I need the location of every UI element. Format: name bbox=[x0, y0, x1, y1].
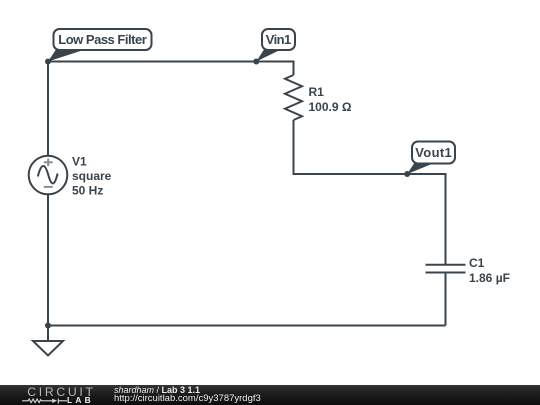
svg-text:1.86 µF: 1.86 µF bbox=[469, 271, 510, 285]
svg-text:Vout1: Vout1 bbox=[415, 145, 452, 160]
node Vout1 dot bbox=[404, 171, 410, 177]
node Vin1 dot bbox=[253, 59, 259, 65]
label box Vin1 bbox=[262, 29, 295, 50]
ground symbol bbox=[33, 326, 63, 356]
node ground dot bbox=[45, 323, 51, 329]
svg-text:LAB: LAB bbox=[67, 395, 94, 405]
voltage source V1 plus sign bbox=[44, 159, 53, 167]
capacitor C1 plates bbox=[426, 265, 466, 273]
svg-text:50 Hz: 50 Hz bbox=[72, 184, 103, 198]
resistor R1 zigzag bbox=[285, 75, 302, 120]
svg-text:square: square bbox=[72, 169, 112, 183]
label box Low Pass Filter bbox=[54, 29, 152, 50]
CircuitLab logo bbox=[0, 385, 100, 405]
value label C1 1.86 uF bbox=[469, 256, 510, 285]
callout pointer Vout1 bbox=[407, 164, 433, 175]
svg-text:Vin1: Vin1 bbox=[266, 32, 292, 47]
footer text bbox=[113, 384, 115, 386]
voltage source V1 minus sign bbox=[44, 186, 53, 188]
svg-text:V1: V1 bbox=[72, 155, 87, 169]
wire capacitor bottom vertical bbox=[445, 274, 447, 326]
value label V1 square 50 Hz bbox=[72, 155, 112, 198]
wire top horizontal from node A to resistor corner bbox=[48, 62, 294, 76]
wire resistor bottom to middle horizontal to capacitor top bbox=[294, 120, 446, 264]
node A dot (Low Pass Filter node) bbox=[45, 59, 51, 65]
voltage source V1 sine wave bbox=[38, 166, 58, 183]
svg-text:R1: R1 bbox=[309, 85, 325, 99]
label box Vout1 bbox=[412, 142, 455, 164]
voltage source V1 circle bbox=[29, 156, 68, 195]
svg-text:100.9 Ω: 100.9 Ω bbox=[309, 100, 352, 114]
callout pointer Vin1 bbox=[256, 50, 281, 62]
footer bar bbox=[0, 385, 540, 405]
wire left vertical upper (node A to V1 top) bbox=[47, 62, 49, 156]
svg-text:C1: C1 bbox=[469, 256, 485, 270]
callout pointer Low Pass Filter bbox=[48, 50, 85, 62]
svg-text:Low Pass Filter: Low Pass Filter bbox=[58, 32, 147, 47]
wire left vertical lower (V1 bottom to ground node) bbox=[47, 195, 49, 326]
value label R1 100.9 ohm bbox=[309, 85, 352, 114]
wire bottom horizontal bbox=[48, 325, 446, 327]
